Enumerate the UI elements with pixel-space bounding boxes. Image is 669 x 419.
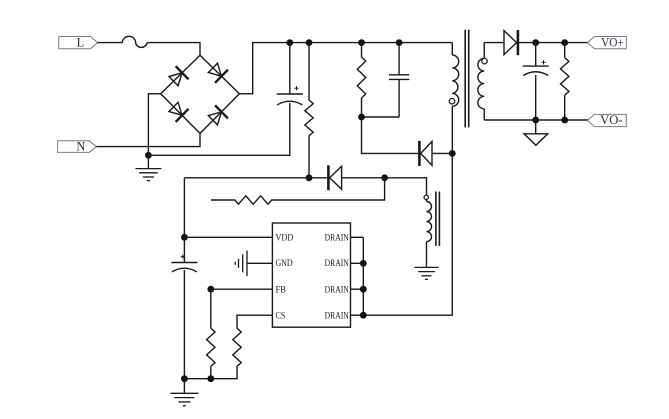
bridge diode D3 (bottom-left) [167,100,188,122]
output bottom bus [484,119,589,121]
ground (output, triangle) [524,134,548,146]
svg-text:VDD: VDD [276,233,294,243]
svg-text:GND: GND [276,259,293,269]
bridge edges [161,55,240,133]
diode D5 (clamp) [419,141,432,166]
svg-text:DRAIN: DRAIN [325,312,349,322]
resistor R1 (startup) [305,43,313,178]
wire bottom ground stub [183,379,185,394]
svg-text:N: N [76,140,85,154]
wire bridge left vertex to ground node [148,94,160,156]
wire aux winding to ground [426,242,428,268]
resistor R3 (FB upper, horizontal) [211,178,385,204]
node drain / primary bottom [449,150,456,157]
transformer T1 core [465,30,469,128]
node FB [207,286,214,293]
wire VDD to IC [184,236,272,238]
fuse F1 [122,36,147,47]
svg-text:DRAIN: DRAIN [325,286,349,296]
wire snubber bottom join [362,116,400,118]
node drain 3 [360,286,367,293]
capacitor C4 (output, polarized) [523,43,549,120]
wire aux node [342,178,427,202]
svg-text:DRAIN: DRAIN [325,259,349,269]
node aux winding top [381,174,388,181]
aux winding L1 [424,195,432,242]
resistor R4 (FB lower) [207,289,215,379]
transformer T1 primary winding [449,43,459,150]
node output cap bottom [532,117,539,124]
diode D7 (output) [504,30,518,55]
wire primary bottom to drain bus [363,153,452,315]
node bulk cap top [286,39,293,46]
svg-text:VO+: VO+ [601,35,624,49]
node snubber cap top [396,39,403,46]
resistor R2 (snubber) [357,43,365,117]
capacitor C1 (bulk, polarized) [277,43,303,105]
svg-text:VO-: VO- [600,113,623,127]
terminal VO+ [588,35,627,49]
node drain 4 [360,312,367,319]
node snubber resistor top [358,39,365,46]
transformer T1 secondary winding [478,43,487,120]
svg-text:FB: FB [276,286,286,296]
terminal L [59,36,98,50]
wire DRAIN pins to bus [351,236,364,238]
ground (aux winding) [415,267,439,279]
node output resistor top [561,39,568,46]
node output cap top [532,39,539,46]
IC U1 [272,223,350,327]
bridge diode D2 (top-right) [206,61,227,83]
ground (GND pin, pointing left) [235,251,247,277]
wire VDD corner down [183,178,185,238]
ground (bottom) [170,393,198,405]
capacitor C3 (VDD, polarized) [171,237,197,378]
svg-text:L: L [77,36,85,50]
wire CS to resistor [237,315,272,328]
node VDD cap [181,234,188,241]
bridge diode D1 (top-left) [167,66,188,88]
svg-text:DRAIN: DRAIN [325,233,349,243]
node startup resistor top [306,39,313,46]
node bottom ground junction [181,375,188,382]
node primary ground junction [145,152,152,159]
wire N to bridge bottom [97,133,201,146]
node output resistor bottom [561,117,568,124]
terminal N [58,140,97,154]
node startup resistor bottom [306,174,313,181]
node drain 2 [360,260,367,267]
top bus wire [239,43,452,94]
resistor R5 (CS) [184,328,241,379]
wire GND pin [247,262,272,264]
wire L to fuse [98,42,123,44]
diode D6 (VDD rectifier) [328,165,341,190]
wire secondary top to output diode [484,42,504,44]
aux winding core [436,192,440,246]
capacitor C2 (snubber) [389,43,409,117]
wire VDD line [184,177,328,179]
wire clamp diode to drain line [432,152,452,154]
wire drain bus [362,237,364,315]
resistor R6 (output) [561,43,569,120]
terminal VO- [588,113,627,127]
ground (bridge) [135,169,161,181]
bridge diode D4 (bottom-right) [206,105,227,127]
wire FB to IC [211,288,273,290]
wire ground node stub down [147,155,149,168]
wire snubber to clamp diode [362,117,419,153]
node snubber bottom [358,114,365,121]
wire output diode to VO+ [518,42,588,44]
wire ground node to bulk cap bottom [148,103,289,155]
wire to output ground [535,120,537,134]
wire fuse to bridge top [147,43,200,56]
svg-text:CS: CS [276,312,286,322]
node bottom FB junction [207,375,214,382]
